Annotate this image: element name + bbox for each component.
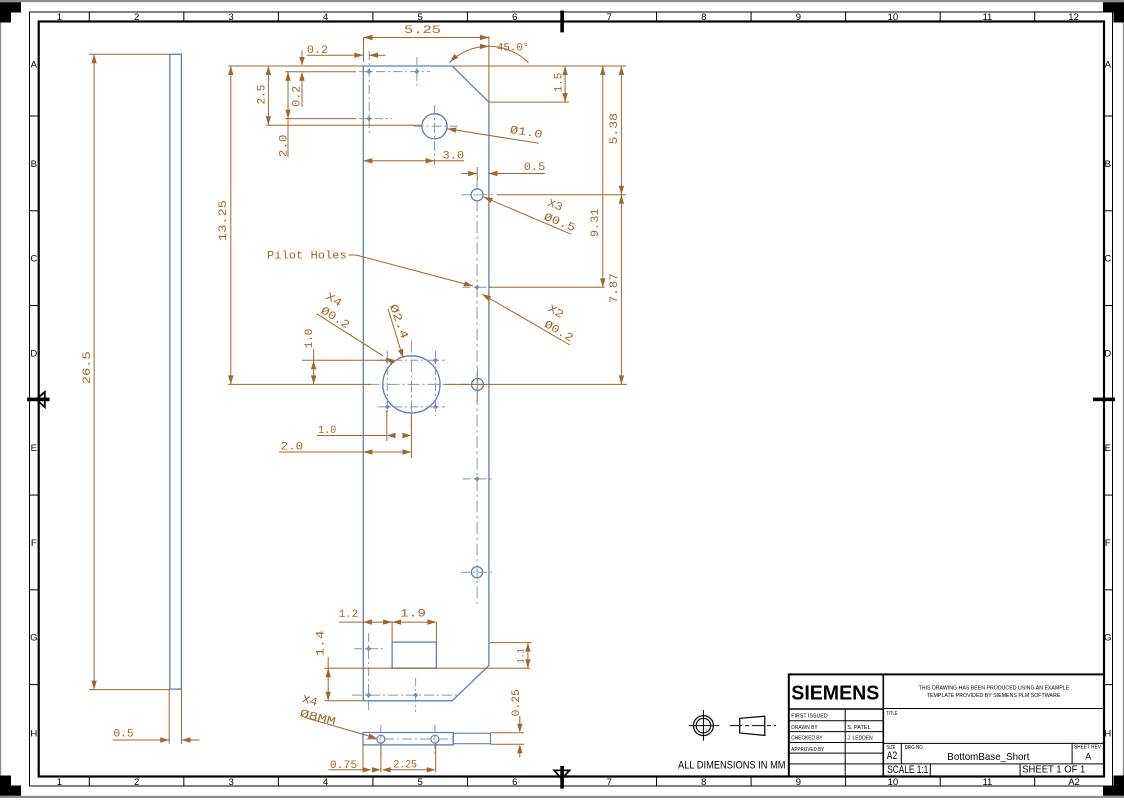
svg-text:2: 2	[134, 12, 139, 23]
svg-text:1.0: 1.0	[318, 425, 336, 437]
svg-text:SIEMENS: SIEMENS	[791, 682, 879, 704]
svg-text:12: 12	[1068, 12, 1079, 23]
extension line X3 hole row to right	[497, 194, 626, 196]
svg-text:2.0: 2.0	[279, 134, 291, 157]
svg-text:11: 11	[982, 777, 992, 788]
dimension 3.0 left edge to hole1 center	[363, 160, 434, 162]
dimension 1.0 pilot column to circle center	[317, 435, 387, 437]
svg-text:1: 1	[57, 12, 62, 23]
dimension 5.38 top edge to X3 hole row	[620, 66, 622, 195]
dimension 5.25 overall width	[364, 37, 489, 39]
svg-text:3: 3	[229, 777, 234, 788]
dimension 26.5 overall height of side view	[89, 53, 170, 55]
svg-text:SHEET REV: SHEET REV	[1074, 745, 1101, 751]
svg-text:2.0: 2.0	[281, 441, 304, 453]
svg-text:1.9: 1.9	[400, 609, 426, 621]
dimension 0.2 vertical top edge to pilot row1	[301, 50, 303, 58]
svg-text:6: 6	[512, 777, 517, 788]
dimension 1.1 cutout height right side	[527, 643, 529, 669]
svg-text:7: 7	[607, 12, 612, 23]
svg-text:2: 2	[134, 777, 139, 788]
svg-text:3: 3	[229, 12, 234, 23]
extension line pilot row to right for 9.31	[489, 286, 605, 288]
leader dia 2.4 large circle	[388, 309, 402, 356]
side view of part (thin plate)	[170, 54, 182, 689]
scale/sheet row lines	[883, 763, 1104, 765]
angular dimension 45.0 deg on chamfer	[449, 46, 528, 63]
svg-text:B: B	[1105, 159, 1111, 170]
svg-text:A2: A2	[887, 750, 897, 762]
title block main vertical divider	[882, 674, 884, 776]
pilot hole marker	[433, 358, 438, 363]
dimension 2.5 top edge to hole center	[267, 66, 269, 125]
centering mark bottom with datum triangle	[560, 766, 564, 789]
vertical centerline through hole column	[476, 178, 478, 604]
bolt circle pattern centerlines around large circle	[386, 351, 388, 416]
svg-text:2.5: 2.5	[256, 84, 268, 104]
svg-text:7.87: 7.87	[609, 273, 621, 303]
svg-text:4: 4	[323, 777, 328, 788]
svg-text:0.25: 0.25	[511, 689, 523, 717]
svg-text:H: H	[1104, 728, 1111, 739]
corner trim mark top-right	[1103, 2, 1124, 22]
pilot hole marker	[414, 69, 419, 74]
svg-text:0.2: 0.2	[292, 86, 304, 107]
pilot hole marker	[475, 476, 480, 481]
crosshair pilot hole row1 left	[368, 51, 370, 133]
bottom view main bar	[363, 733, 453, 745]
svg-text:A2: A2	[1068, 777, 1080, 788]
svg-text:9.31: 9.31	[590, 208, 602, 237]
crosshair hole dia1.0	[414, 125, 458, 127]
svg-text:TITLE: TITLE	[886, 711, 897, 717]
svg-text:45.0°: 45.0°	[497, 42, 529, 54]
centering mark right	[1093, 398, 1115, 402]
bottom view right chamfer segment	[453, 733, 490, 744]
svg-text:0.5: 0.5	[524, 162, 546, 174]
hole diameter 1.0 circle	[422, 114, 447, 139]
pilot hole marker	[413, 693, 418, 698]
pilot hole marker	[433, 404, 438, 409]
crosshair pilot hole on centerline upper	[463, 286, 493, 288]
svg-text:13.25: 13.25	[218, 200, 230, 241]
extension line pilot row top of large circle	[302, 359, 386, 361]
crosshair pilot hole row2	[359, 118, 392, 120]
zone dividers top and bottom bands	[88, 12, 90, 22]
leader X2 dia 0.2 pilot holes	[482, 294, 570, 345]
svg-text:1.0: 1.0	[304, 328, 316, 348]
svg-text:C: C	[30, 254, 37, 265]
svg-text:A: A	[1105, 59, 1112, 70]
svg-text:J. LEDDEN: J. LEDDEN	[847, 736, 873, 742]
corner trim mark bottom-right	[1103, 776, 1124, 796]
extension line top edge to left dims	[228, 65, 363, 67]
leader X3 dia 0.5 holes	[484, 197, 571, 234]
small hole middle (0.5 dia)	[472, 378, 484, 390]
svg-text:G: G	[1104, 633, 1111, 644]
SIEMENS logo cell line	[789, 708, 884, 710]
svg-text:APPROVED BY: APPROVED BY	[791, 747, 824, 753]
svg-text:9: 9	[796, 777, 801, 788]
corner trim mark bottom-left	[0, 776, 21, 796]
size/drg row lines	[883, 742, 1104, 744]
corner trim mark top-left	[0, 2, 21, 22]
svg-text:6: 6	[512, 12, 517, 23]
front view part outline with 45 deg chamfers	[363, 66, 489, 701]
svg-text:Pilot Holes: Pilot Holes	[267, 251, 347, 263]
svg-text:H: H	[30, 728, 37, 739]
paper edge shading	[0, 0, 1124, 2]
extension line cutout top row right	[490, 642, 531, 644]
extension line below chamfer for 1.5	[489, 101, 569, 103]
svg-text:0.5: 0.5	[113, 729, 133, 741]
svg-text:9: 9	[796, 12, 801, 23]
dimension 9.31 top edge to pilot hole row	[602, 66, 604, 287]
svg-text:8: 8	[701, 12, 706, 23]
svg-text:1: 1	[57, 777, 62, 788]
third angle projection symbol circles	[693, 716, 713, 736]
svg-text:3.0: 3.0	[443, 151, 465, 163]
crosshair bottom small hole	[461, 571, 493, 573]
svg-text:S. PATEL: S. PATEL	[847, 725, 871, 731]
small hole X3 top (0.5 dia)	[471, 189, 483, 201]
crosshair pilot hole row1 right	[416, 57, 418, 88]
svg-text:D: D	[30, 348, 37, 359]
dimension 1.0 vertical pilot row to center	[313, 349, 315, 360]
svg-text:A: A	[31, 59, 38, 70]
svg-text:D: D	[1104, 348, 1111, 359]
svg-text:E: E	[31, 443, 37, 454]
leader X4 dia 0.2 pilot holes at large circle	[317, 314, 383, 356]
svg-text:8: 8	[701, 777, 706, 788]
centerlines bottom cutout pilot holes	[368, 633, 370, 710]
extension line part bottom edge left	[324, 700, 363, 702]
dimension 0.5 side view thickness	[168, 690, 170, 744]
svg-text:7: 7	[607, 777, 612, 788]
svg-text:G: G	[30, 633, 37, 644]
extension lines below large circle	[386, 410, 388, 441]
svg-text:1.1: 1.1	[516, 648, 528, 663]
title cell line	[883, 708, 1104, 710]
projection symbol truncated cone	[740, 716, 765, 735]
crosshair middle small hole	[460, 383, 495, 385]
crosshair large circle	[410, 341, 412, 429]
dimension 2.0 left edge to circle center	[279, 451, 411, 453]
svg-text:SCALE 1:1: SCALE 1:1	[887, 764, 928, 776]
svg-text:CHECKED BY: CHECKED BY	[791, 736, 822, 742]
extension line pilot row2 left	[285, 118, 356, 120]
pilot hole marker	[366, 646, 371, 651]
svg-text:5: 5	[418, 12, 423, 23]
svg-text:DRAWN BY: DRAWN BY	[791, 725, 818, 731]
svg-text:SHEET 1 OF 1: SHEET 1 OF 1	[1022, 764, 1085, 775]
extension line center row right segment	[445, 383, 628, 385]
extension line cutout bottom row long	[324, 667, 530, 669]
dimension 2.0 pilot row1 to row2	[287, 72, 289, 119]
rectangular cutout near bottom of front view	[392, 642, 436, 668]
svg-text:26.5: 26.5	[82, 351, 94, 384]
approval rows lines	[789, 720, 884, 722]
svg-text:A: A	[1085, 752, 1091, 762]
extension line hole1 center row left	[266, 124, 422, 126]
svg-text:5.38: 5.38	[609, 113, 621, 145]
svg-text:E: E	[1105, 443, 1111, 454]
svg-text:B: B	[31, 159, 37, 170]
svg-text:4: 4	[323, 12, 328, 23]
leader diameter 1.0 hole	[447, 129, 539, 144]
pilot hole marker	[366, 693, 371, 698]
svg-text:11: 11	[982, 12, 992, 23]
extension line center row left segment	[228, 383, 370, 385]
pilot hole marker	[366, 69, 371, 74]
svg-text:FIRST ISSUED: FIRST ISSUED	[791, 713, 827, 719]
zone dividers left and right bands	[30, 115, 39, 117]
svg-text:C: C	[1104, 254, 1111, 265]
bottom view hole 1	[377, 735, 385, 743]
pilot hole marker	[385, 358, 390, 363]
extension of top edge to right side dims	[452, 65, 626, 67]
pilot hole marker	[475, 285, 480, 290]
svg-text:THIS DRAWING HAS BEEN PRODUCED: THIS DRAWING HAS BEEN PRODUCED USING AN …	[919, 686, 1070, 692]
dimension 7.87 X3 row to center row	[620, 195, 622, 385]
extension lines cutout to 1.2/1.9 dims	[391, 622, 393, 642]
svg-text:5.25: 5.25	[404, 25, 441, 37]
dimension 1.5 chamfer height	[564, 66, 566, 102]
crosshair X3 hole top	[462, 194, 493, 196]
svg-text:5: 5	[418, 777, 423, 788]
projection symbol crosshair	[689, 725, 720, 727]
crosshair pilot hole on centerline lower	[463, 478, 493, 480]
extension line pilot row1 left	[285, 71, 356, 73]
svg-text:TEMPLATE PROVIDED BY SIEMENS P: TEMPLATE PROVIDED BY SIEMENS PLM SOFTWAR…	[927, 693, 1061, 699]
svg-text:DRG NO.: DRG NO.	[905, 745, 924, 751]
svg-text:F: F	[1105, 538, 1111, 549]
extension lines for 0.75 and 2.25	[362, 745, 364, 773]
small hole bottom (0.5 dia)	[471, 567, 482, 578]
bottom view hole 2	[431, 735, 439, 743]
dimension 13.25 top edge to part center	[230, 66, 232, 384]
large circle diameter 2.4	[383, 356, 440, 413]
svg-text:1.5: 1.5	[553, 72, 565, 92]
pilot hole marker	[385, 404, 390, 409]
approval rows column divider	[844, 709, 846, 777]
dimension 1.4 cutout bottom to part bottom	[327, 657, 329, 701]
centering mark top	[560, 11, 564, 33]
svg-text:10: 10	[888, 12, 899, 23]
title block outer border	[789, 674, 1104, 776]
svg-text:F: F	[31, 538, 37, 549]
svg-text:1.4: 1.4	[315, 630, 327, 656]
centering mark left with datum triangle	[27, 398, 50, 402]
bottom view centerline	[366, 738, 452, 740]
svg-text:10: 10	[888, 777, 899, 788]
pilot hole marker	[366, 116, 371, 121]
svg-text:BottomBase_Short: BottomBase_Short	[947, 752, 1029, 763]
svg-text:1.2: 1.2	[339, 609, 359, 621]
svg-text:ALL DIMENSIONS IN MM: ALL DIMENSIONS IN MM	[678, 759, 786, 771]
